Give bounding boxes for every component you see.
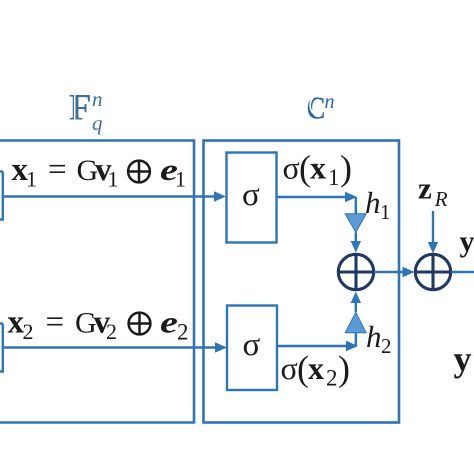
label F_q^n (69, 87, 103, 135)
svg-text:q: q (92, 111, 103, 135)
wire sigma2 output to corner (277, 333, 358, 352)
label sigma(x1) (283, 148, 353, 190)
source box S1 (0, 172, 3, 220)
svg-text:1: 1 (328, 165, 340, 190)
wire h2 to adder1 (351, 292, 361, 313)
adder A2 (415, 254, 450, 289)
wire sigma1 output to corner (277, 192, 358, 214)
svg-text:σ: σ (281, 350, 298, 386)
label h2 (366, 319, 392, 358)
svg-text:y: y (460, 225, 474, 258)
label equation x2 = Gv2 + e2 (8, 305, 189, 345)
label sigma(x2) (281, 349, 351, 391)
svg-text:x: x (310, 150, 326, 186)
wire z_R to adder2 (428, 211, 438, 254)
adder A1 (338, 254, 373, 289)
svg-text:e: e (160, 305, 178, 339)
svg-text:σ: σ (283, 150, 300, 186)
svg-text:2: 2 (326, 366, 338, 391)
svg-text:1: 1 (108, 167, 119, 192)
svg-text:1: 1 (26, 167, 37, 192)
svg-text:1: 1 (175, 167, 186, 192)
box C^n outer (204, 141, 400, 423)
wire adder1 to adder2 (374, 267, 415, 277)
label h1 (365, 185, 391, 224)
wire h1 to adder1 (351, 233, 361, 253)
svg-text:n: n (325, 91, 335, 113)
svg-text:): ) (338, 349, 350, 389)
oplus in equation 2 (129, 313, 151, 335)
svg-text:=: = (46, 305, 65, 341)
svg-text:F: F (69, 88, 92, 129)
svg-text:C: C (307, 91, 326, 126)
svg-text:h: h (365, 185, 381, 220)
svg-text:=: = (48, 152, 67, 188)
oplus in equation 1 (128, 161, 150, 183)
svg-text:h: h (366, 319, 382, 354)
svg-text:x: x (308, 350, 324, 386)
gain h2 triangle (345, 312, 366, 333)
wire x1 to sigma1 (3, 191, 226, 201)
box sigma2 (227, 306, 277, 391)
svg-text:2: 2 (177, 320, 189, 345)
gain h1 triangle (345, 214, 366, 233)
svg-text:n: n (92, 87, 103, 111)
svg-text:2: 2 (381, 334, 392, 358)
svg-text:R: R (434, 187, 448, 211)
wire x2 to sigma2 (3, 342, 227, 352)
svg-text:y′: y′ (454, 339, 474, 379)
svg-text:2: 2 (106, 319, 117, 344)
svg-text:1: 1 (380, 200, 391, 224)
svg-text:z: z (418, 171, 432, 206)
svg-text:σ: σ (242, 177, 260, 213)
svg-text:2: 2 (23, 319, 34, 344)
source box S2 (0, 324, 3, 372)
label equation x1 = Gv1 + e1 (12, 152, 187, 192)
box F_q^n outer (0, 141, 194, 423)
wire y output (452, 271, 474, 273)
box sigma1 (227, 153, 277, 243)
svg-text:σ: σ (243, 327, 261, 363)
svg-text:): ) (340, 148, 352, 188)
label z_R (418, 171, 448, 212)
label C^n (307, 91, 335, 126)
